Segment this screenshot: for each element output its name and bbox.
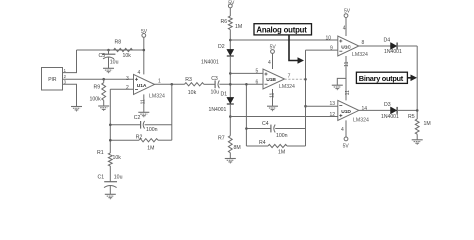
wire R3 to C3 — [204, 83, 215, 85]
svg-text:10k: 10k — [188, 90, 197, 96]
svg-text:C1: C1 — [98, 175, 105, 181]
wire left feedback vertical — [109, 89, 111, 153]
ground PIR pin3 — [71, 107, 82, 112]
svg-text:8: 8 — [362, 40, 365, 46]
svg-text:1M: 1M — [235, 24, 242, 30]
wire bias node to U1B pin5 — [230, 72, 263, 74]
svg-text:5: 5 — [256, 69, 259, 75]
svg-text:8M: 8M — [234, 145, 241, 151]
svg-text:R3: R3 — [185, 77, 192, 83]
wire U1B pin7 output dashed — [285, 78, 306, 80]
svg-text:10u: 10u — [110, 60, 119, 66]
wire upper threshold row to U1C pin10 — [230, 39, 337, 41]
svg-text:LM324: LM324 — [279, 84, 295, 90]
svg-text:5V: 5V — [141, 29, 148, 35]
diode D2 1N4001 — [201, 44, 234, 66]
ground R5 — [412, 140, 423, 145]
wire 5V to R6 — [229, 8, 231, 16]
svg-text:C3: C3 — [211, 76, 218, 82]
resistor R4 1M — [246, 140, 305, 156]
wire pin11 ground branch — [337, 78, 346, 85]
svg-text:5V: 5V — [343, 144, 350, 150]
wire signal vertical net — [305, 50, 307, 146]
Binary output label box — [356, 72, 407, 83]
svg-text:R9: R9 — [94, 85, 101, 91]
wire PIR pin1 up to supply row — [63, 50, 77, 73]
Analog output label box — [254, 24, 312, 35]
wire D4 to binary net corner — [398, 45, 417, 47]
op-amp U1C — [326, 36, 368, 58]
resistor R1 10k — [97, 150, 121, 166]
node C4 left junction — [245, 127, 248, 130]
power 5V top center — [228, 1, 235, 8]
ground shared pin11 — [332, 85, 343, 90]
svg-text:10k: 10k — [123, 53, 132, 59]
svg-text:100k: 100k — [90, 97, 102, 103]
svg-text:11: 11 — [345, 90, 351, 95]
svg-text:R5: R5 — [408, 114, 415, 120]
capacitor C4 100n — [246, 121, 305, 139]
wire U1D pin4 down to 5V — [341, 120, 346, 136]
wire supply row — [77, 49, 144, 51]
svg-text:11: 11 — [344, 61, 350, 66]
svg-text:1: 1 — [158, 78, 161, 84]
svg-text:3: 3 — [126, 76, 129, 82]
svg-text:R6: R6 — [221, 19, 228, 25]
wire C4/R4 left branch vertical — [245, 84, 247, 146]
resistor R7 8M — [218, 136, 241, 159]
svg-text:10: 10 — [326, 36, 332, 42]
svg-text:D3: D3 — [384, 102, 391, 108]
svg-text:9: 9 — [330, 46, 333, 52]
svg-text:4: 4 — [341, 127, 344, 133]
op-amp U1D — [330, 100, 369, 123]
resistor R9 100k — [90, 79, 106, 106]
resistor R3 10k — [185, 77, 204, 96]
svg-text:5V: 5V — [270, 45, 277, 51]
svg-text:10u: 10u — [114, 175, 123, 181]
ground R9 — [98, 106, 109, 111]
svg-text:C2: C2 — [134, 115, 141, 121]
wire U1A output — [155, 83, 185, 85]
diode D3 1N4001 — [381, 102, 399, 120]
op-amp U1B — [256, 69, 295, 90]
svg-text:4: 4 — [138, 70, 141, 76]
svg-text:1M: 1M — [278, 150, 285, 156]
node R2 left junction — [109, 139, 112, 142]
wire D2 to D1 — [229, 56, 231, 97]
node C2 left junction — [109, 124, 112, 127]
svg-text:2: 2 — [126, 85, 129, 91]
node binary net junction — [416, 109, 419, 112]
wire C3 to U1B pin6 row — [219, 83, 263, 85]
svg-text:1M: 1M — [147, 146, 154, 152]
svg-text:U1B: U1B — [266, 77, 276, 83]
ground U1B pin11 — [267, 106, 278, 111]
ground C5 — [103, 68, 114, 73]
svg-text:LM324: LM324 — [352, 52, 368, 58]
svg-text:R1: R1 — [97, 150, 104, 156]
wire R6 to D2 — [229, 30, 231, 50]
wire D3 to binary net — [398, 109, 417, 111]
node lower threshold — [229, 115, 232, 118]
wire shared pin11 vertical U1C to U1D — [344, 56, 351, 100]
resistor R5 1M — [408, 114, 431, 140]
svg-text:6: 6 — [256, 80, 259, 86]
svg-text:R2: R2 — [136, 135, 143, 141]
svg-text:13: 13 — [330, 101, 336, 107]
svg-text:1N4001: 1N4001 — [209, 107, 227, 113]
wire U1A pin2 row — [110, 88, 133, 90]
svg-text:Binary output: Binary output — [359, 74, 404, 83]
wire U1D output to D3 — [359, 109, 391, 111]
wire 5V to U1B pin4 — [268, 54, 273, 70]
power 5V U1B — [270, 45, 277, 54]
node upper threshold — [229, 39, 232, 42]
wire U1D pin13 row — [306, 105, 338, 107]
power 5V at R8 right / U1A pin4 — [141, 29, 148, 37]
svg-text:PIR: PIR — [48, 77, 57, 83]
op-amp U1A — [126, 74, 165, 99]
wire feedback right vertical — [171, 84, 173, 140]
svg-text:U1D: U1D — [341, 109, 351, 115]
svg-text:10u: 10u — [211, 90, 220, 96]
svg-text:Analog output: Analog output — [256, 25, 307, 34]
svg-text:1M: 1M — [424, 121, 431, 127]
ground R7 — [225, 159, 236, 164]
node C3 row crossing — [229, 83, 232, 86]
diode D1 1N4001 — [209, 92, 234, 113]
svg-text:D4: D4 — [384, 37, 391, 43]
svg-text:D2: D2 — [218, 44, 225, 50]
node pin6 row branch — [245, 83, 248, 86]
diode D4 1N4001 — [384, 37, 403, 55]
capacitor C5 10u — [99, 50, 119, 68]
wire lower threshold row to U1D pin12 — [230, 116, 337, 118]
node R9 top junction — [102, 78, 105, 81]
svg-text:4: 4 — [268, 60, 271, 66]
svg-text:1N4001: 1N4001 — [381, 114, 399, 120]
svg-text:1N4001: 1N4001 — [384, 49, 402, 55]
wire U1B pin11 to ground — [270, 89, 276, 106]
svg-text:12: 12 — [330, 112, 336, 118]
svg-text:R4: R4 — [259, 140, 266, 146]
resistor R2 1M — [110, 135, 172, 152]
PIR sensor module — [42, 68, 67, 91]
svg-text:R8: R8 — [115, 40, 122, 46]
ground U1A pin11 — [138, 112, 149, 117]
wire binary net vertical — [416, 46, 418, 119]
node C5 junction — [107, 49, 110, 52]
resistor R6 1M — [221, 16, 243, 30]
svg-text:LM324: LM324 — [353, 117, 369, 123]
svg-text:D1: D1 — [221, 92, 228, 98]
svg-text:C4: C4 — [262, 121, 269, 127]
wire U1C output to D4 — [359, 45, 391, 47]
svg-text:4: 4 — [343, 26, 346, 32]
capacitor C3 10u — [211, 76, 220, 95]
svg-text:LM324: LM324 — [149, 94, 165, 100]
svg-text:5V: 5V — [228, 1, 235, 7]
svg-text:10k: 10k — [113, 155, 122, 161]
wire PIR pin3 down to ground — [63, 84, 77, 106]
svg-text:11: 11 — [140, 99, 146, 104]
svg-text:11: 11 — [270, 92, 276, 97]
svg-text:5V: 5V — [344, 9, 351, 15]
power 5V U1C — [344, 9, 351, 18]
svg-text:R7: R7 — [218, 136, 225, 142]
svg-text:U1A: U1A — [137, 83, 147, 89]
capacitor C2 100n — [110, 115, 172, 133]
capacitor C1 10u — [98, 166, 123, 194]
Binary output arrow — [407, 75, 417, 82]
Analog output arrow — [289, 35, 304, 64]
wire 5V down through supply row to U1A pin4 — [143, 37, 145, 74]
svg-text:C5: C5 — [99, 53, 106, 59]
wire U1C pin9 row — [306, 49, 338, 51]
svg-text:2: 2 — [64, 74, 67, 79]
node U1B pin5 takeoff — [229, 72, 232, 75]
wire D1 to R7 — [229, 104, 231, 136]
svg-text:U1C: U1C — [341, 44, 351, 50]
svg-text:1N4001: 1N4001 — [201, 60, 219, 66]
node feedback takeoff — [171, 83, 174, 86]
ground C1 — [105, 194, 116, 199]
svg-text:7: 7 — [288, 73, 291, 79]
wire 5V to U1C pin4 — [343, 18, 346, 36]
resistor R8 10k — [114, 40, 133, 60]
svg-text:100n: 100n — [276, 133, 288, 139]
svg-text:100n: 100n — [146, 127, 158, 133]
wire PIR pin2 to U1A pin3 — [63, 78, 134, 80]
wire U1A pin11 to ground — [140, 94, 146, 112]
power 5V U1D — [343, 137, 350, 150]
node pin13 takeoff — [304, 105, 307, 108]
node supply row / 5V column — [143, 49, 146, 52]
node pin7 junction — [304, 78, 307, 81]
